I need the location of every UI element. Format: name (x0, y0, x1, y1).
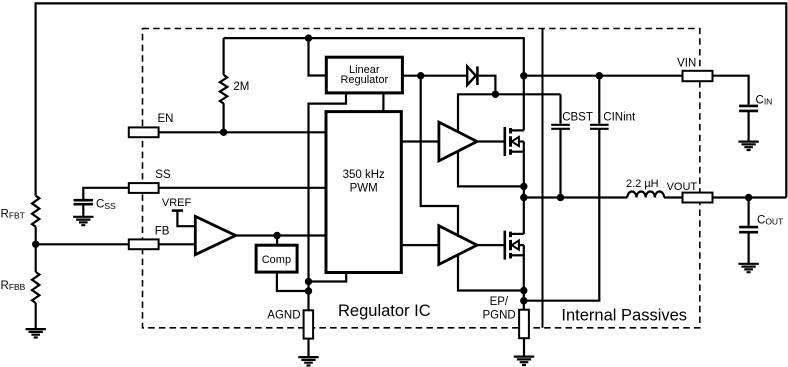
capacitor CINint (598, 76, 600, 124)
ground below CSS (73, 217, 93, 225)
wire comp tap (276, 236, 278, 246)
pin AGND pad (304, 310, 314, 338)
wire RFBB to ground (35, 303, 37, 329)
pin EP/PGND pad (519, 310, 529, 339)
node CINint top junction (596, 72, 603, 79)
wire EP pad to ground (523, 338, 525, 356)
block U3 350 kHz PWM (326, 112, 401, 273)
node comp tap junction (273, 232, 280, 239)
wire FB row: divider node to error amp (36, 243, 196, 245)
svg-text:VOUT: VOUT (667, 181, 698, 193)
wire Q2 source to PGND pad (523, 245, 525, 310)
svg-text:AGND: AGND (267, 309, 300, 321)
block U2 Linear Regulator (326, 57, 402, 93)
wire upper gate driver input (401, 140, 439, 142)
wire top VIN bias rail (224, 38, 524, 130)
wire VIN pad to CIN (713, 76, 749, 105)
svg-text:Internal Passives: Internal Passives (561, 307, 687, 325)
resistor RFBT (32, 196, 39, 227)
node LR output junction (417, 72, 424, 79)
svg-text:2M: 2M (233, 81, 249, 93)
wire Q1 source to switch node (523, 142, 525, 198)
wire linear regulator output to diode (402, 75, 467, 77)
node boost rail junction (492, 91, 499, 98)
wire VOUT pad to COUT node and right border (713, 196, 787, 198)
ground below EP/PGND (514, 357, 534, 365)
wire linear regulator input (309, 38, 327, 75)
transistor Q1 high-side MOSFET (505, 127, 524, 156)
wire feedback loop: top border, right border down to VOUT node, left border down to RFBT (36, 3, 787, 197)
node VIN rail / Q1 drain (520, 72, 527, 79)
wire lower driver supply from LR output (421, 76, 524, 291)
node COUT junction (745, 194, 752, 201)
node analog ground junction upper (305, 278, 312, 285)
wire SS row: CSS corner to PWM (83, 188, 326, 199)
gate driver U4 upper triangle (439, 122, 477, 161)
svg-text:Regulator IC: Regulator IC (338, 302, 431, 320)
wire error amp output to PWM (236, 234, 326, 236)
wire switch node row to inductor (524, 196, 628, 198)
node top rail to linear regulator (305, 34, 312, 41)
svg-text:CSS: CSS (96, 199, 116, 211)
svg-text:PGND: PGND (483, 310, 516, 322)
block Comp (256, 245, 297, 272)
node FB divider junction (32, 241, 39, 248)
node switch node junction (520, 194, 527, 201)
node PGND return junction (520, 297, 527, 304)
svg-text:EN: EN (158, 113, 174, 125)
resistor 2M with top rail connection (223, 103, 225, 132)
pin SS pad (129, 183, 159, 193)
svg-text:CIN: CIN (756, 94, 773, 106)
wire PWM ground stub (309, 273, 347, 282)
gate driver U5 lower triangle (439, 226, 477, 265)
svg-text:CINint: CINint (603, 111, 636, 123)
wire Q2 drain to switch node (523, 198, 525, 234)
wire upper driver output to gate (477, 140, 505, 142)
svg-text:VIN: VIN (677, 58, 696, 70)
svg-text:EP/: EP/ (490, 296, 509, 308)
pin VIN pad (683, 71, 713, 81)
capacitor COUT (747, 198, 749, 226)
ground below CIN (738, 142, 758, 150)
diode D1 bootstrap (467, 66, 476, 85)
node upper driver return (520, 183, 527, 190)
node CBST switch node junction (557, 194, 564, 201)
svg-text:VREF: VREF (162, 197, 192, 209)
capacitor CBST (559, 94, 561, 123)
dashed module boundary box (143, 29, 700, 328)
wire AGND pad to ground (307, 339, 309, 358)
wire EN row: pad to PWM (159, 131, 327, 133)
svg-text:350 kHz: 350 kHz (343, 169, 385, 181)
wire upper driver supply boost rail and return (458, 94, 561, 186)
svg-text:Comp: Comp (262, 254, 291, 266)
svg-text:FB: FB (155, 226, 170, 238)
node lower driver return (520, 287, 527, 294)
svg-text:PWM: PWM (350, 182, 378, 194)
wire RFBT to FB node to RFBB (35, 227, 37, 272)
wire inductor to VOUT pad (664, 196, 682, 198)
wire lower gate driver input (401, 244, 439, 246)
inductor L1 2.2uH (627, 191, 664, 197)
svg-text:RFBB: RFBB (1, 280, 26, 292)
svg-text:SS: SS (155, 169, 171, 181)
wire linear regulator ground stub down to AGND (309, 93, 347, 310)
wire lower driver output to gate (477, 244, 505, 246)
ground below RFBB (26, 329, 46, 337)
resistor RFBB (32, 272, 39, 303)
svg-text:COUT: COUT (757, 215, 783, 227)
pin VOUT pad (683, 193, 713, 203)
wire linear regulator to PWM stub (382, 93, 384, 112)
svg-text:Regulator: Regulator (340, 74, 388, 86)
pin EN pad (129, 127, 159, 137)
capacitor CIN (739, 106, 758, 111)
pin FB pad (129, 239, 159, 249)
capacitor CSS (74, 200, 94, 204)
node analog ground junction lower (305, 287, 312, 294)
svg-text:CBST: CBST (562, 111, 593, 123)
divider line between Regulator IC and Internal Passives (542, 29, 544, 328)
op-amp U1 error amplifier: VREF terminal (172, 209, 183, 212)
ground below COUT (738, 264, 758, 272)
node 2M/EN junction (220, 129, 227, 136)
wire diode cathode to boost rail (477, 76, 495, 95)
svg-text:2.2 µH: 2.2 µH (626, 178, 659, 190)
op-amp U1 error amplifier triangle (195, 216, 235, 254)
wire VIN rail (524, 75, 683, 77)
wire comp ground stub (277, 272, 309, 291)
svg-text:RFBT: RFBT (1, 208, 25, 220)
ground below AGND (298, 357, 318, 365)
transistor Q2 low-side MOSFET (505, 231, 524, 260)
